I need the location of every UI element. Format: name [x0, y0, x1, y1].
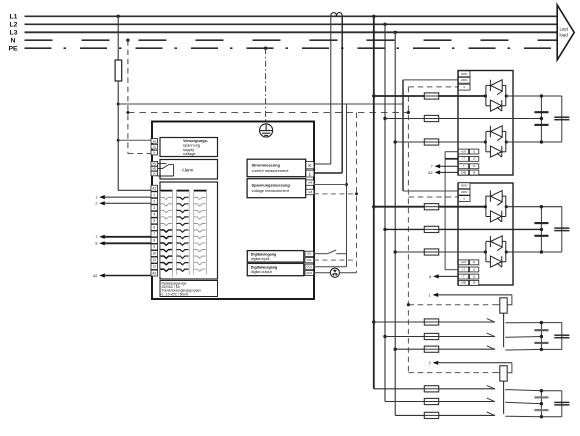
junction module2 L3 feed	[394, 250, 397, 253]
svg-text:MS: MS	[152, 162, 156, 166]
svg-text:Digitalausgang: Digitalausgang	[251, 266, 277, 270]
wire control bus vertical	[444, 152, 446, 270]
arrow to contactor 1	[95, 195, 151, 200]
junction N drop	[126, 39, 129, 42]
contactor K2 contact L2	[487, 398, 542, 404]
terminal K	[306, 162, 314, 169]
junction L1/fuse drop	[117, 15, 120, 18]
fuse branch4 L3	[424, 412, 438, 418]
contactor K2 coil	[500, 363, 512, 381]
svg-text:9: 9	[153, 245, 155, 249]
wire to terminal Ueff1	[314, 184, 347, 186]
current measurement sub-box	[247, 159, 306, 177]
junction module2 L2 feed	[383, 228, 386, 231]
wire N drop (dashed)	[127, 40, 129, 153]
wire branch4 L3	[395, 414, 495, 416]
svg-text:400V: 400V	[461, 184, 467, 188]
switch S1 (digital input)	[328, 250, 337, 254]
terminal GND (module 1)	[458, 170, 468, 175]
capacitor bank C1 (module 1)	[534, 96, 569, 142]
svg-text:N: N	[153, 151, 155, 155]
terminal A2	[151, 270, 158, 276]
terminal M0	[151, 166, 158, 171]
wire N branch to modules 0-rail (dashed)	[128, 112, 409, 114]
terminal DO1	[305, 264, 314, 269]
svg-text:N: N	[11, 38, 16, 45]
arrow to contactor 2	[95, 201, 151, 206]
terminal 400V (module 1)	[458, 71, 470, 77]
svg-text:2: 2	[153, 199, 155, 203]
svg-text:DO1: DO1	[307, 265, 313, 269]
wire contactor2 coil return (dashed)	[408, 372, 493, 374]
arrow 7 to module1 -T	[431, 164, 459, 169]
terminal -T (module 2)	[458, 274, 468, 279]
wire module2 L1 feed	[374, 206, 486, 208]
fuse module2 L3	[424, 249, 438, 255]
contactor K2 contact L1	[487, 385, 542, 390]
svg-text:2: 2	[95, 202, 97, 206]
contactor K1 contact L3	[487, 346, 542, 350]
wire DI1 with switch	[314, 253, 328, 255]
svg-text:2: 2	[429, 361, 431, 365]
alarm sub-box	[160, 160, 218, 180]
junction branch3 L2	[383, 335, 386, 338]
svg-text:GND: GND	[461, 282, 467, 285]
terminal Lb	[151, 144, 158, 149]
wire module1 L3 output	[506, 141, 562, 143]
contactor K2 contact L3	[487, 412, 542, 417]
thyristor pair module1 phase L3	[486, 126, 506, 157]
fuse module2 L2	[424, 226, 438, 232]
junction La tap	[117, 139, 120, 142]
wire N measurement vertical (dashed)	[356, 113, 358, 273]
alarm relay contact	[158, 164, 174, 176]
junction L1 drop	[372, 15, 375, 18]
svg-text:8: 8	[429, 275, 431, 279]
load arrow "Last/load"	[557, 5, 574, 60]
wire to module2 230V	[403, 190, 458, 192]
terminal 6	[151, 224, 158, 230]
terminal 230V (module 2)	[458, 189, 470, 195]
relay contact ladder (3 columns x 12)	[160, 191, 206, 277]
svg-text:L2: L2	[10, 22, 18, 29]
ratings text box	[160, 281, 218, 297]
wire L1 to fuse F1	[117, 16, 119, 60]
svg-text:0...10 VDC / 50mA: 0...10 VDC / 50mA	[162, 292, 189, 296]
wire branch3 L2	[385, 336, 495, 338]
arrow to module 1	[95, 235, 151, 240]
junction PE drop	[264, 47, 267, 50]
svg-text:L1: L1	[10, 14, 18, 21]
svg-text:L3: L3	[10, 30, 18, 37]
fuse branch3 L1	[424, 319, 438, 325]
wire branch4 L1	[374, 388, 495, 390]
svg-text:230V: 230V	[461, 190, 467, 194]
svg-text:La: La	[153, 139, 157, 143]
junction coil1 return	[407, 303, 410, 306]
contactor K1 linkage	[503, 313, 505, 347]
terminal +T (module 1)	[458, 156, 468, 161]
thyristor module U3 box	[458, 183, 513, 285]
svg-text:Alarm: Alarm	[182, 167, 194, 172]
wire fuse F1 down to controller A1	[117, 81, 119, 190]
terminal +10V (module 2)	[458, 260, 468, 265]
svg-text:8: 8	[153, 239, 155, 243]
contactor K1 contact L2	[487, 333, 542, 337]
junction module1 L1 feed	[372, 94, 375, 97]
wire branch3 bottom to cap	[541, 348, 561, 350]
wire to terminal La	[118, 139, 153, 141]
fuse module1 L1	[424, 93, 438, 99]
junction N branch	[126, 111, 129, 114]
svg-text:Ueff: Ueff	[308, 181, 313, 184]
terminal 400V (module 2)	[458, 183, 470, 189]
terminal -T (module 1)	[458, 164, 468, 169]
capacitor bank C4	[534, 391, 569, 417]
wire 0/N rail (dashed)	[407, 87, 409, 373]
terminal +10V (module 1)	[458, 149, 468, 154]
fuse module1 L2	[424, 115, 438, 121]
wire module1 L1 feed	[374, 95, 486, 97]
terminal A1	[151, 185, 158, 191]
svg-text:+10V: +10V	[461, 261, 467, 264]
svg-text:7: 7	[153, 232, 155, 236]
junction 0-rail / N branch	[407, 111, 410, 114]
capacitor bank C2 (module 2)	[534, 207, 569, 252]
wire L1(fused) supply to modules 230V rail	[118, 103, 403, 105]
thyristor pair module1 phase L1	[486, 80, 506, 111]
terminal GND (module 2)	[458, 280, 468, 285]
terminal 230V (module 1)	[458, 77, 470, 83]
capacitor bank C3	[534, 323, 569, 350]
svg-text:+10V: +10V	[461, 150, 467, 153]
svg-text:11: 11	[153, 258, 157, 262]
junction Ueff tap	[345, 183, 348, 186]
svg-text:6: 6	[153, 226, 155, 230]
svg-text:7: 7	[431, 165, 433, 169]
wire module1 L3 feed	[395, 141, 486, 143]
contactor K2 linkage	[503, 381, 505, 414]
svg-text:400V: 400V	[461, 72, 467, 76]
wire to terminal A1	[118, 189, 151, 191]
fuse branch4 L2	[424, 398, 438, 404]
svg-text:1: 1	[95, 196, 97, 200]
svg-text:A1: A1	[152, 186, 156, 190]
svg-text:Spannungsmessung: Spannungsmessung	[252, 183, 291, 188]
svg-text:digital output: digital output	[251, 270, 272, 274]
terminal 1	[151, 192, 158, 198]
svg-text:4: 4	[153, 213, 155, 217]
arrow A2 to module1 GND	[428, 170, 458, 175]
voltage measurement sub-box	[247, 179, 306, 198]
svg-text:A2: A2	[152, 271, 156, 275]
junction L2 drop	[383, 23, 386, 26]
contactor K1 coil	[500, 295, 512, 313]
ground (protective earth symbol on controller top)	[260, 124, 273, 137]
terminal M	[151, 171, 158, 176]
terminal La	[151, 139, 158, 144]
wire module1 L1 output	[506, 95, 562, 97]
wire module1 L2 feed	[385, 118, 541, 120]
node L1 bus	[25, 15, 558, 17]
thyristor module U2 box	[458, 71, 513, 176]
svg-text:voltage: voltage	[183, 151, 196, 156]
thyristor pair module2 phase L3	[486, 236, 506, 267]
wire module1 +10V to bus	[445, 151, 458, 153]
svg-text:GND: GND	[461, 171, 467, 174]
terminal 7	[151, 231, 158, 237]
svg-text:DI1: DI1	[307, 252, 312, 256]
svg-text:Lb: Lb	[153, 145, 157, 149]
svg-text:3: 3	[153, 206, 155, 210]
terminal 2	[151, 198, 158, 204]
junction branch3 L3	[394, 348, 397, 351]
node L3 bus	[25, 31, 558, 33]
svg-text:10: 10	[152, 252, 156, 256]
wire control bus into module2 +T	[445, 269, 458, 271]
terminal 5	[151, 218, 158, 224]
wire module2 L3 feed	[395, 251, 486, 253]
svg-text:A2: A2	[428, 171, 432, 175]
svg-text:Digitaleingang: Digitaleingang	[251, 253, 276, 257]
junction module1 L2 feed	[383, 117, 386, 120]
wire module2 L3 output	[506, 251, 562, 253]
digital output sub-box	[247, 263, 303, 275]
junction module2 L1 feed	[372, 205, 375, 208]
terminal DI2	[305, 258, 314, 263]
svg-text:load: load	[560, 33, 569, 38]
arrow A2 common	[93, 273, 151, 278]
svg-text:Strommessung: Strommessung	[252, 163, 281, 168]
fuse module1 L3	[424, 139, 438, 145]
svg-text:DO2: DO2	[307, 271, 313, 275]
terminal +T (module 2)	[458, 267, 468, 272]
terminal Ueff2	[306, 189, 314, 194]
terminal 0 (module 1)	[458, 84, 470, 90]
terminal 12	[151, 264, 158, 270]
wire k to terminal K	[314, 163, 331, 165]
node L2 bus	[25, 23, 558, 25]
fan motor M1 (ventilation)	[314, 268, 357, 277]
wire module1 +T jumper	[445, 158, 458, 160]
current transformer CT on L1	[331, 12, 342, 15]
svg-text:7: 7	[95, 235, 97, 239]
wire 230V supply rail	[402, 80, 404, 104]
contactor K1 contact L1	[487, 319, 542, 323]
junction L3 drop	[394, 31, 397, 34]
wire to module2 0	[408, 196, 458, 198]
digital input sub-box	[247, 251, 303, 263]
svg-text:1: 1	[153, 193, 155, 197]
svg-text:M: M	[153, 171, 155, 175]
junction branch3 L1	[372, 320, 375, 323]
arrow 8 to module2 -T	[429, 274, 458, 279]
wire to terminal N (dashed)	[128, 153, 154, 155]
terminal 8	[151, 237, 158, 243]
terminal 10	[151, 251, 158, 257]
arrow 1 to contactor K1	[429, 293, 512, 298]
terminal 11	[151, 257, 158, 263]
svg-text:M0: M0	[152, 167, 156, 171]
supply voltage sub-box	[160, 138, 218, 157]
node N bus (dashed)	[25, 39, 558, 41]
fuse module2 L1	[424, 204, 438, 210]
svg-text:L: L	[309, 171, 312, 176]
wire branch3 L3	[395, 348, 495, 350]
wire branch4 top to cap	[541, 390, 561, 392]
svg-text:12: 12	[152, 265, 156, 269]
junction supply tap	[117, 103, 120, 106]
wire to terminal Ueff2 (dashed)	[314, 193, 357, 195]
wire to module1 0	[408, 86, 458, 88]
wire branch4 L2	[385, 401, 495, 403]
svg-text:current measurement: current measurement	[252, 168, 290, 173]
terminal 0 (module 2)	[458, 196, 470, 202]
wire CT secondary l	[341, 16, 343, 173]
svg-text:1: 1	[429, 293, 431, 297]
terminal DO2	[305, 270, 314, 275]
terminal N	[151, 150, 158, 155]
terminal 4	[151, 211, 158, 217]
controller U1 (reactive power controller) box	[152, 122, 314, 300]
wire branch3 L1	[374, 321, 495, 323]
svg-text:voltage measurement: voltage measurement	[252, 188, 290, 193]
relay outputs sub-box	[160, 182, 218, 279]
wire l to terminal L	[314, 172, 342, 174]
wire module2 L1 output	[506, 206, 562, 208]
fuse F1	[115, 60, 122, 81]
svg-text:A2: A2	[93, 274, 97, 278]
terminal L	[306, 170, 314, 177]
terminal 3	[151, 205, 158, 211]
fuse branch4 L1	[424, 386, 438, 392]
wire module2 L2 feed	[385, 228, 541, 230]
svg-text:5: 5	[153, 219, 155, 223]
svg-text:Ueff: Ueff	[308, 191, 313, 194]
terminal Ueff1	[306, 180, 314, 185]
svg-text:DI2: DI2	[307, 258, 312, 262]
terminal 9	[151, 244, 158, 250]
junction Ueff2/N tap	[355, 192, 358, 195]
fuse branch3 L3	[424, 346, 438, 352]
svg-text:8: 8	[95, 242, 97, 246]
wire DO1	[314, 266, 347, 268]
svg-text:PE: PE	[9, 46, 19, 53]
svg-text:Last: Last	[560, 27, 569, 32]
wire branch3 top to cap	[541, 322, 561, 324]
terminal DI1	[305, 251, 314, 256]
junction module1 L3 feed	[394, 140, 397, 143]
svg-text:digital input: digital input	[251, 257, 270, 261]
wire CT secondary k	[330, 16, 332, 164]
arrow 2 to contactor K2	[429, 361, 512, 366]
wire PE drop (dash-dot) to earth terminal	[265, 48, 267, 122]
terminal MS	[151, 161, 158, 166]
thyristor pair module2 phase L1	[486, 191, 506, 222]
wire DI2 (dashed)	[314, 259, 357, 261]
svg-text:230V: 230V	[461, 78, 467, 82]
node PE bus (dash-dot)	[25, 47, 558, 49]
wire to module1 230V	[403, 79, 458, 81]
wire branch4 bottom to cap	[541, 416, 561, 418]
fuse branch3 L2	[424, 333, 438, 339]
wire contactor1 coil return (dashed)	[408, 304, 493, 306]
arrow to module 2	[95, 241, 151, 246]
wire measurement feeder (L1 fused) vertical	[346, 104, 348, 267]
